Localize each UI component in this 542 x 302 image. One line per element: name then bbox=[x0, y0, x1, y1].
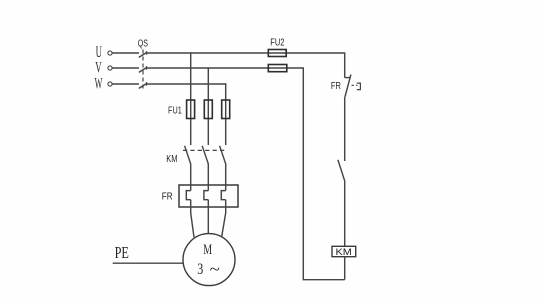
wire L3 KM to FR heater bbox=[225, 164, 227, 191]
terminal U bbox=[108, 51, 112, 55]
svg-text:~: ~ bbox=[210, 260, 220, 279]
wire V terminal to QS bbox=[112, 67, 139, 69]
FR heater element 2 bbox=[204, 191, 208, 200]
contactor KM pole 1 blade bbox=[185, 146, 191, 164]
contactor KM linkage (dashed) bbox=[183, 149, 228, 151]
wire U phase QS through FU2 to control bbox=[147, 53, 344, 78]
svg-text:FU2: FU2 bbox=[270, 37, 284, 49]
wire motor lead 3 bbox=[222, 200, 226, 238]
fuse FU2 b bbox=[268, 65, 287, 72]
motor M circle bbox=[183, 234, 235, 286]
svg-text:V: V bbox=[95, 60, 102, 77]
wire FR to start contact bbox=[344, 97, 346, 161]
wire drop L3 through fuse bbox=[225, 83, 227, 145]
wire start contact to KM coil bbox=[344, 181, 346, 246]
wire motor lead 2 bbox=[207, 200, 209, 234]
switch QS pole W blade bbox=[139, 82, 147, 88]
fuse FU1 c bbox=[222, 100, 230, 119]
contact FR NC fixed tick bbox=[345, 77, 351, 79]
contactor coil KM box bbox=[332, 246, 356, 256]
switch QS pole U blade bbox=[139, 51, 147, 57]
svg-text:U: U bbox=[96, 44, 103, 61]
FR heater element 1 bbox=[186, 191, 190, 200]
FR trip linkage (dashed) bbox=[352, 84, 358, 86]
FR trip actuator symbol bbox=[357, 83, 361, 90]
terminal W bbox=[108, 82, 112, 86]
wire U terminal to QS bbox=[112, 52, 139, 54]
svg-text:FU1: FU1 bbox=[168, 104, 182, 116]
contact start (NO) blade bbox=[338, 160, 345, 181]
wire drop L2 through fuse bbox=[207, 67, 209, 145]
contactor KM pole 3 blade bbox=[220, 146, 226, 164]
wire motor lead 1 bbox=[191, 200, 194, 238]
wire drop L1 through fuse bbox=[190, 52, 192, 145]
FR heater element 3 bbox=[221, 191, 225, 200]
terminal V bbox=[108, 66, 112, 70]
switch QS pole V blade bbox=[139, 66, 147, 72]
svg-text:FR: FR bbox=[162, 190, 173, 202]
wire PE to motor bbox=[113, 262, 184, 264]
contact FR NC blade bbox=[345, 75, 351, 97]
wire L2 KM to FR heater bbox=[207, 164, 209, 191]
wire W phase QS to drop bbox=[147, 83, 226, 85]
wire V phase QS through FU2 to loop bbox=[147, 68, 344, 280]
svg-text:FR: FR bbox=[331, 80, 341, 92]
thermal relay FR box bbox=[179, 185, 238, 207]
wire W terminal to QS bbox=[112, 83, 139, 85]
svg-text:W: W bbox=[95, 75, 103, 92]
svg-text:M: M bbox=[203, 242, 212, 258]
svg-text:PE: PE bbox=[115, 243, 129, 262]
svg-text:KM: KM bbox=[166, 153, 177, 165]
switch QS linkage (dashed) bbox=[142, 50, 144, 89]
svg-text:3: 3 bbox=[197, 261, 203, 278]
fuse FU1 b bbox=[204, 100, 212, 119]
svg-text:KM: KM bbox=[336, 247, 352, 257]
wire L1 KM to FR heater bbox=[190, 164, 192, 191]
fuse FU2 a bbox=[268, 50, 286, 57]
contactor KM pole 2 blade bbox=[202, 146, 208, 164]
svg-text:QS: QS bbox=[138, 38, 148, 50]
fuse FU1 a bbox=[187, 100, 195, 119]
wire KM coil to bottom bbox=[344, 257, 346, 280]
